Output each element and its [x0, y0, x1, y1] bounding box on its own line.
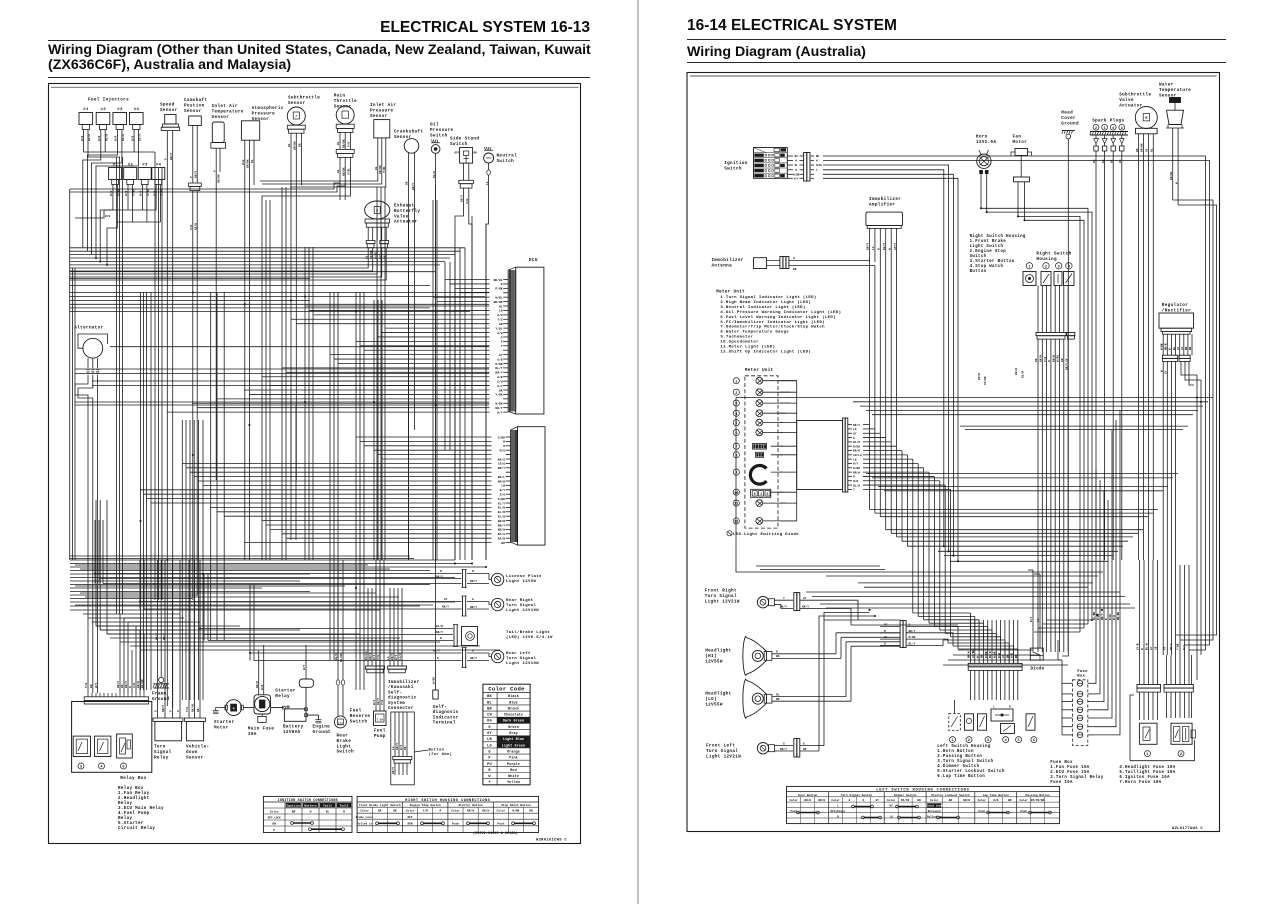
- svg-text:G/BK: G/BK: [498, 435, 505, 439]
- svg-text:Y/BL: Y/BL: [495, 326, 502, 330]
- svg-text:2.Passing Button: 2.Passing Button: [937, 754, 982, 759]
- svg-text:Switch: Switch: [350, 719, 368, 724]
- svg-text:G: G: [803, 742, 805, 745]
- svg-text:Indicator: Indicator: [433, 715, 459, 720]
- svg-text:diagnosis: diagnosis: [433, 710, 459, 715]
- svg-text:BK/Y: BK/Y: [391, 767, 395, 774]
- engine ground (battery side): [305, 712, 331, 735]
- svg-text:(56052-0161C & 0212A): (56052-0161C & 0212A): [473, 831, 518, 836]
- svg-text:BL/R: BL/R: [87, 134, 91, 141]
- svg-text:BK/R: BK/R: [255, 681, 259, 688]
- svg-text:BK: BK: [816, 155, 820, 158]
- svg-text:B/R: B/R: [130, 136, 134, 141]
- immobilizer connector comb A: [364, 588, 384, 673]
- svg-text:License Plate: License Plate: [506, 574, 542, 579]
- svg-text:Light 12V21W: Light 12V21W: [705, 599, 740, 604]
- svg-text:BL/W: BL/W: [1021, 371, 1025, 378]
- svg-text:Reserve: Reserve: [350, 714, 371, 719]
- svg-text:Dark Green: Dark Green: [503, 719, 524, 724]
- svg-text:DG: DG: [487, 720, 492, 724]
- button (for odo) panel: [391, 712, 452, 785]
- svg-text:Starter: Starter: [275, 689, 296, 694]
- right switch housing block: [1023, 252, 1074, 286]
- svg-text:Light 12V5W: Light 12V5W: [506, 579, 537, 584]
- self-diagnosis indicator terminal: [432, 560, 459, 726]
- svg-text:Pressure: Pressure: [370, 108, 393, 113]
- svg-text:O: O: [863, 799, 865, 802]
- svg-text:W: W: [310, 811, 312, 814]
- inlet air pressure sensor: [260, 103, 396, 187]
- relay box: [72, 693, 152, 781]
- ECU upper feed wires (stair from component drops): [167, 280, 490, 413]
- svg-text:R: R: [1048, 360, 1051, 362]
- svg-text:LED.Light Emitting Diode: LED.Light Emitting Diode: [733, 532, 799, 537]
- svg-text:B/R: B/R: [124, 191, 128, 196]
- svg-text:W/Y: W/Y: [497, 410, 503, 414]
- ECU lower feed wires (stair): [140, 437, 492, 543]
- svg-text:LG: LG: [487, 744, 492, 748]
- svg-text:Sensor: Sensor: [370, 114, 388, 119]
- svg-text:BL: BL: [375, 166, 378, 170]
- svg-text:OFF: OFF: [407, 816, 412, 819]
- svg-text:Valve: Valve: [1119, 98, 1134, 103]
- svg-text:LO: LO: [890, 815, 894, 818]
- svg-text:Immobilizer: Immobilizer: [869, 197, 901, 202]
- svg-text:Headlight: Headlight: [705, 692, 731, 697]
- svg-text:Amplifier: Amplifier: [869, 202, 895, 207]
- svg-text:R: R: [439, 810, 441, 813]
- svg-text:2: 2: [1045, 265, 1047, 269]
- svg-text:3: 3: [1058, 265, 1060, 269]
- svg-text:Turn Signal Switch: Turn Signal Switch: [841, 793, 872, 797]
- relay box (bottom right 2): [1171, 723, 1196, 757]
- svg-text:BL/R: BL/R: [104, 134, 108, 141]
- left page part number footnotes: [473, 831, 567, 843]
- svg-text:BR/B: BR/B: [498, 519, 505, 523]
- meter unit water temp gauge C glyph: [750, 466, 766, 485]
- right page running header: 16-14 ELECTRICAL SYSTEM: [687, 17, 897, 35]
- svg-text:W/BK: W/BK: [1159, 343, 1163, 350]
- svg-text:OFF(Push): OFF(Push): [830, 809, 845, 813]
- svg-text:Y: Y: [783, 597, 785, 600]
- svg-text:G: G: [884, 642, 886, 645]
- svg-text:G/Y: G/Y: [497, 384, 503, 388]
- svg-text:BK/W: BK/W: [804, 798, 811, 802]
- svg-text:12V55W: 12V55W: [705, 702, 723, 707]
- svg-text:BK: BK: [393, 810, 397, 813]
- svg-text:W/BK: W/BK: [432, 677, 436, 684]
- svg-text:Tail1: Tail1: [323, 804, 332, 808]
- svg-text:R: R: [884, 630, 886, 633]
- starter relay and main fuse 30A: [248, 655, 296, 737]
- svg-text:Sensor: Sensor: [288, 101, 306, 106]
- svg-text:Alternator: Alternator: [74, 326, 103, 331]
- svg-text:Color: Color: [887, 798, 896, 802]
- svg-text:Push: Push: [1020, 809, 1027, 813]
- svg-text:BL: BL: [326, 811, 330, 814]
- meter harness bundle descent and elbows: [870, 425, 1018, 663]
- head cover ground: [1061, 111, 1079, 657]
- svg-text:Relay Box: Relay Box: [120, 776, 146, 781]
- svg-text:2.Engine Stop: 2.Engine Stop: [970, 249, 1007, 254]
- svg-text:BK/BL: BK/BL: [191, 703, 195, 712]
- svg-text:Immobilizer: Immobilizer: [388, 680, 420, 685]
- svg-text:Button: Button: [429, 749, 445, 753]
- svg-text:Color: Color: [978, 798, 987, 802]
- svg-text:Butterfly: Butterfly: [394, 209, 420, 214]
- svg-text:3.Turn Signal Switch: 3.Turn Signal Switch: [937, 759, 993, 764]
- right switch housing wires down to connectors: [1035, 286, 1075, 527]
- svg-text:Battery: Battery: [304, 805, 317, 808]
- svg-text:BR: BR: [90, 684, 93, 688]
- svg-text:BR: BR: [292, 811, 296, 814]
- svg-text:Right Switch: Right Switch: [1036, 252, 1071, 257]
- svg-text:BK/Y: BK/Y: [470, 579, 477, 583]
- svg-text:Terminal: Terminal: [433, 721, 456, 726]
- svg-text:BK/W: BK/W: [977, 373, 981, 380]
- svg-text:R/BK: R/BK: [495, 362, 502, 366]
- svg-text:(LED) 12V0.5/4.1W: (LED) 12V0.5/4.1W: [506, 635, 553, 640]
- svg-text:R/BK: R/BK: [909, 635, 916, 639]
- svg-text:P: P: [501, 336, 503, 339]
- immobilizer amplifier: [866, 197, 903, 262]
- svg-text:RI/FD: RI/FD: [901, 798, 910, 802]
- starter motor: [213, 700, 254, 731]
- svg-text:2: 2: [1095, 127, 1097, 131]
- svg-text:BK: BK: [1119, 159, 1122, 163]
- svg-text:Turn: Turn: [154, 745, 166, 750]
- headlight 4-pin connector: [836, 621, 958, 650]
- svg-text:BR/BK: BR/BK: [341, 167, 345, 176]
- right page horizontal bus group 6 (lower): [756, 572, 1103, 665]
- svg-text:2.Headlight: 2.Headlight: [118, 796, 150, 801]
- svg-text:Y/W: Y/W: [347, 142, 351, 147]
- svg-text:Push: Push: [452, 821, 459, 825]
- svg-text:down: down: [186, 750, 198, 755]
- svg-text:Fan: Fan: [1013, 135, 1022, 140]
- svg-text:Main Fuse: Main Fuse: [248, 727, 274, 732]
- svg-text:BR: BR: [487, 707, 492, 711]
- svg-text:ON: ON: [272, 823, 276, 826]
- relay connector comb 1 (bottom right): [1136, 643, 1161, 720]
- svg-text:BK/Y: BK/Y: [460, 195, 464, 202]
- svg-text:1.Fan Fuse 15A: 1.Fan Fuse 15A: [1050, 766, 1089, 770]
- svg-text:LG/R: LG/R: [398, 653, 402, 660]
- svg-text:BK/Y: BK/Y: [169, 153, 173, 160]
- svg-text:BR: BR: [529, 810, 533, 813]
- svg-text:W2R0161CWS C: W2R0161CWS C: [536, 839, 567, 843]
- svg-text:GY: GY: [853, 432, 857, 435]
- svg-text:Fuse: Fuse: [1077, 670, 1088, 674]
- inlet air temperature sensor: [211, 104, 244, 480]
- svg-text:Cover: Cover: [1061, 116, 1076, 121]
- svg-text:#3: #3: [142, 164, 148, 168]
- svg-text:P: P: [190, 176, 193, 178]
- svg-text:R: R: [1009, 706, 1011, 709]
- svg-text:Color: Color: [406, 809, 415, 813]
- svg-text:Oil: Oil: [430, 123, 439, 128]
- svg-text:Connector: Connector: [388, 707, 414, 711]
- svg-text:4: 4: [1112, 127, 1115, 131]
- left page title: [48, 43, 591, 73]
- svg-text:#3: #3: [117, 108, 123, 112]
- immobilizer connector comb B: [387, 588, 406, 673]
- right page main vertical bundle (center): [870, 700, 897, 746]
- svg-text:Color: Color: [790, 798, 799, 802]
- svg-text:W/Y: W/Y: [394, 655, 398, 660]
- right page horizontal bus group 5: [902, 541, 1128, 561]
- regulator/rectifier: [1159, 303, 1201, 655]
- svg-text:BK/W: BK/W: [194, 223, 198, 230]
- svg-text:Fuel Injectors: Fuel Injectors: [88, 98, 129, 103]
- svg-text:III: III: [338, 722, 343, 725]
- svg-text:Self-: Self-: [388, 690, 402, 695]
- svg-text:BK/W: BK/W: [967, 651, 971, 658]
- svg-text:Switch: Switch: [970, 254, 987, 259]
- right page vertical bundle A (x1039-1069 descent): [1038, 470, 1102, 656]
- battery 12V8Ah: [283, 705, 306, 735]
- svg-text:GY: GY: [1146, 148, 1149, 152]
- svg-text:BL/R: BL/R: [436, 624, 443, 628]
- svg-text:BK/W: BK/W: [1014, 368, 1018, 375]
- svg-text:Atmospheric: Atmospheric: [252, 106, 284, 111]
- svg-text:BK/Y: BK/Y: [780, 604, 787, 608]
- svg-text:Main: Main: [334, 94, 346, 99]
- svg-text:BK: BK: [1189, 346, 1192, 350]
- svg-text:BR/BK: BR/BK: [1140, 143, 1144, 152]
- svg-text:1.Front Brake: 1.Front Brake: [970, 239, 1007, 244]
- svg-text:BK/Y: BK/Y: [436, 575, 443, 579]
- svg-text:BK/Y: BK/Y: [470, 656, 477, 660]
- svg-text:OFF.LOCK: OFF.LOCK: [268, 817, 281, 820]
- svg-text:R/BL: R/BL: [816, 163, 823, 167]
- svg-text:W/Y: W/Y: [94, 683, 98, 688]
- svg-text:R/W: R/W: [241, 160, 245, 165]
- svg-text:BK/Y: BK/Y: [390, 653, 394, 660]
- svg-text:Fuse 10A: Fuse 10A: [1050, 781, 1073, 785]
- svg-text:BR/BK: BR/BK: [293, 141, 297, 150]
- svg-text:Meter Unit: Meter Unit: [745, 368, 774, 373]
- svg-text:Engine: Engine: [313, 725, 331, 730]
- svg-text:Ground: Ground: [152, 697, 170, 702]
- svg-text:Clutch Lever: Clutch Lever: [925, 804, 944, 808]
- svg-text:Sensor: Sensor: [186, 755, 204, 760]
- svg-text:BL/Y: BL/Y: [495, 366, 502, 370]
- svg-text:7.Horn Fuse 10A: 7.Horn Fuse 10A: [1119, 781, 1161, 785]
- svg-text:BK/Y: BK/Y: [433, 649, 440, 653]
- junction dots: [94, 257, 487, 654]
- svg-text:Front Left: Front Left: [706, 744, 735, 749]
- svg-text:BL/R: BL/R: [853, 440, 860, 444]
- svg-text:3: 3: [1121, 127, 1123, 131]
- svg-text:Right Switch Housing: Right Switch Housing: [970, 234, 1026, 239]
- svg-text:B/R: B/R: [139, 191, 143, 196]
- svg-text:8.Water Temperature Gauge: 8.Water Temperature Gauge: [720, 330, 789, 335]
- svg-text:Temperature: Temperature: [212, 109, 244, 114]
- svg-text:GY: GY: [1181, 346, 1184, 350]
- svg-text:Speed: Speed: [160, 103, 175, 108]
- svg-text:BK/Y: BK/Y: [866, 243, 870, 250]
- svg-text:BR/B: BR/B: [853, 449, 860, 453]
- svg-text:G: G: [472, 598, 474, 601]
- meter harness fan-out wires: [848, 423, 951, 492]
- svg-text:3: 3: [987, 739, 989, 743]
- svg-text:Y/G: Y/G: [185, 707, 189, 712]
- svg-text:3.ECU Main Relay: 3.ECU Main Relay: [118, 806, 164, 811]
- fuse box legend list: [1050, 761, 1175, 785]
- rear right turn signal light: [140, 560, 539, 616]
- svg-text:RL: RL: [776, 693, 780, 696]
- left switch housing connector bar: [967, 640, 1022, 700]
- svg-text:G/W: G/W: [465, 199, 469, 204]
- meter unit LED symbols: [756, 377, 763, 524]
- svg-text:BK/Y: BK/Y: [853, 423, 860, 427]
- svg-text:1: 1: [735, 380, 737, 384]
- ignition switch connections table: [263, 796, 352, 832]
- exhaust butterfly valve actuator: [70, 201, 420, 280]
- tail/brake light (LED): [200, 574, 553, 647]
- svg-text:BK: BK: [121, 684, 124, 688]
- svg-text:GY: GY: [499, 354, 503, 357]
- left page running header: ELECTRICAL SYSTEM 16-13: [330, 19, 590, 37]
- svg-text:ECU: ECU: [529, 258, 538, 263]
- svg-text:GR: GR: [499, 323, 503, 326]
- svg-text:7.5A: 7.5A: [377, 719, 384, 722]
- svg-text:2.ECU Fuse 15A: 2.ECU Fuse 15A: [1050, 771, 1089, 775]
- svg-text:3: 3: [80, 766, 82, 770]
- svg-text:LB: LB: [487, 738, 492, 742]
- svg-text:R: R: [129, 686, 132, 688]
- svg-text:BR/BK: BR/BK: [1116, 612, 1120, 620]
- svg-text:Frame: Frame: [152, 692, 167, 697]
- svg-text:B/R: B/R: [97, 136, 101, 141]
- svg-text:4.Dimmer Switch: 4.Dimmer Switch: [937, 764, 979, 769]
- svg-text:Switch: Switch: [497, 159, 515, 164]
- svg-text:BK: BK: [917, 799, 921, 802]
- svg-text:Pulled in: Pulled in: [357, 821, 373, 825]
- svg-text:#1: #1: [113, 164, 119, 168]
- svg-text:2: 2: [735, 392, 737, 396]
- svg-text:LB/G: LB/G: [498, 462, 505, 466]
- front left turn signal light: [706, 613, 875, 760]
- svg-text:B/Y: B/Y: [500, 488, 506, 492]
- vertical bundle center: [182, 183, 345, 700]
- svg-text:BL: BL: [499, 305, 503, 308]
- LED note: [727, 531, 799, 538]
- svg-text:GY: GY: [1065, 358, 1068, 362]
- meter harness band: [780, 381, 848, 521]
- center page divider: [637, 0, 639, 904]
- svg-text:White: White: [508, 774, 519, 779]
- svg-text:B/R: B/R: [114, 136, 118, 141]
- svg-text:Temperature: Temperature: [1159, 88, 1191, 93]
- right page added lower horizontals: [756, 566, 1135, 608]
- svg-text:BL: BL: [487, 701, 492, 705]
- svg-text:Y/W: Y/W: [189, 225, 193, 230]
- svg-text:G/W: G/W: [132, 683, 136, 688]
- svg-text:1: 1: [1104, 127, 1106, 131]
- svg-text:Y/R: Y/R: [1043, 357, 1047, 362]
- svg-text:R: R: [776, 651, 778, 654]
- svg-text:Inlet Air: Inlet Air: [212, 104, 238, 109]
- svg-text:BL: BL: [1173, 346, 1176, 350]
- svg-text:W/Y: W/Y: [372, 655, 376, 660]
- svg-text:Y/R: Y/R: [380, 700, 384, 705]
- svg-text:P: P: [273, 829, 275, 832]
- svg-text:GY: GY: [487, 732, 492, 736]
- atmospheric pressure sensor: [241, 106, 284, 410]
- svg-text:4.Headlight Fuse 10A: 4.Headlight Fuse 10A: [1119, 765, 1175, 770]
- svg-text:O: O: [155, 710, 158, 712]
- svg-text:BK/Y: BK/Y: [116, 681, 120, 688]
- svg-text:Pink: Pink: [509, 756, 518, 761]
- svg-text:Chocolate: Chocolate: [504, 713, 523, 718]
- svg-text:Relay: Relay: [118, 816, 132, 821]
- svg-text:BL/R: BL/R: [138, 134, 142, 141]
- svg-text:Released: Released: [928, 809, 941, 813]
- svg-text:BR/BK: BR/BK: [216, 174, 220, 183]
- meter unit block: [745, 368, 778, 528]
- svg-text:Circuit Relay: Circuit Relay: [118, 826, 155, 831]
- svg-text:BK: BK: [803, 748, 807, 751]
- wire bus group D (lower mesh horizontals): [70, 560, 500, 650]
- svg-text:Housing: Housing: [1036, 257, 1057, 262]
- immobilizer antenna: [712, 257, 875, 272]
- svg-text:Fuse Box: Fuse Box: [1050, 761, 1073, 765]
- main throttle sensor: [70, 94, 357, 201]
- svg-text:BK: BK: [1035, 358, 1038, 362]
- ignition switch output wires: [793, 155, 1209, 650]
- svg-text:1.Turn Signal Indicator Light: 1.Turn Signal Indicator Light (LED): [720, 295, 816, 300]
- svg-text:5.Starter: 5.Starter: [118, 822, 144, 826]
- svg-text:BK: BK: [404, 746, 407, 750]
- svg-text:GY: GY: [1164, 646, 1167, 650]
- wire bus group C (mid horizontals): [70, 347, 489, 559]
- svg-text:BR/BK: BR/BK: [378, 165, 382, 174]
- svg-text:diagnostic: diagnostic: [388, 696, 417, 701]
- svg-text:5.Fuel Level Warning Indicator: 5.Fuel Level Warning Indicator Light (LE…: [720, 315, 836, 320]
- svg-text:P/BK: P/BK: [495, 287, 502, 291]
- svg-text:Brown: Brown: [508, 706, 519, 711]
- svg-text:P: P: [165, 158, 168, 160]
- svg-text:BK/Y: BK/Y: [376, 698, 380, 705]
- svg-text:BK/Y: BK/Y: [194, 171, 198, 178]
- svg-text:#1: #1: [83, 108, 89, 112]
- headlight LO: [705, 642, 851, 718]
- svg-text:Y/BK: Y/BK: [1176, 643, 1180, 650]
- svg-text:Front Brake Light Switch: Front Brake Light Switch: [359, 803, 401, 807]
- svg-text:5: 5: [767, 492, 769, 496]
- svg-text:W/Y: W/Y: [399, 745, 403, 750]
- svg-text:#2: #2: [101, 108, 107, 112]
- svg-text:W/Y: W/Y: [372, 700, 376, 705]
- svg-text:G/B: G/B: [497, 375, 503, 379]
- svg-text:BL/R: BL/R: [432, 171, 436, 178]
- wire runs from injectors row1 to left bundle: [83, 143, 155, 258]
- svg-text:DG/LG: DG/LG: [364, 651, 368, 660]
- svg-text:GY: GY: [876, 799, 880, 802]
- rear brake light switch and fuel reserve switch: [334, 560, 370, 755]
- wire bus group A (upper left horizontals): [70, 248, 465, 286]
- svg-text:GY: GY: [1177, 346, 1180, 350]
- svg-text:Orange: Orange: [507, 749, 520, 754]
- svg-text:Engine Stop Switch: Engine Stop Switch: [410, 803, 441, 807]
- svg-text:Motor: Motor: [214, 725, 229, 730]
- svg-text:BK/R: BK/R: [136, 681, 140, 688]
- svg-text:B/R: B/R: [152, 191, 156, 196]
- svg-text:W/BK: W/BK: [853, 466, 860, 470]
- vertical bundle right-center descent to ECU rows: [291, 185, 486, 690]
